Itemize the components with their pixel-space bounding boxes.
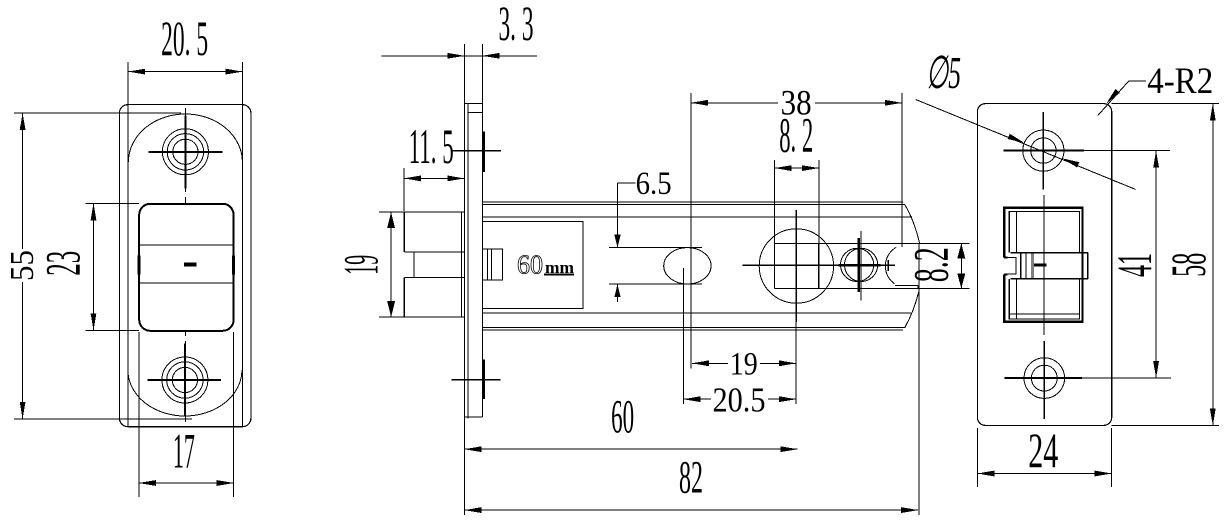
- bottom screw hole middle circle (left view): [167, 362, 203, 398]
- svg-text:17: 17: [173, 423, 195, 479]
- bottom screw crosshair (left view): [148, 344, 221, 417]
- dimension text 11.5: [409, 118, 454, 174]
- top screw hole inner circle (left view): [173, 139, 198, 164]
- dimension text 8.2 (square hole): [779, 107, 813, 163]
- follower hub inner vertical line bottom: [1016, 279, 1018, 319]
- faceplate bottom boss dome arc: [128, 370, 242, 416]
- dimension 3.3 line with arrows: [382, 53, 538, 59]
- left view vertical centerline: [185, 108, 187, 422]
- latch bolt right edge bold tick: [232, 256, 235, 275]
- dimension 11.5 extension line: [403, 168, 405, 211]
- bolt tail guide inner line 2: [490, 249, 492, 280]
- bottom screw hole inner circle (left view): [172, 367, 197, 392]
- dimension text 60: [611, 391, 634, 444]
- dimension 24 extension lines: [977, 428, 1111, 487]
- dimension 11.5 line with arrows: [404, 176, 465, 182]
- follower band top edge: [1010, 252, 1088, 254]
- extension line x=919 (82 dim right): [918, 243, 920, 515]
- svg-text:4-R2: 4-R2: [1147, 61, 1213, 102]
- case body top outer line: [482, 201, 903, 203]
- follower hub inner square: [1009, 212, 1079, 319]
- square spindle hole right edge: [818, 243, 820, 288]
- latch bolt left edge bold tick: [138, 256, 141, 275]
- dimension 17 extension line right: [233, 332, 235, 497]
- dimension text 6.5: [636, 166, 672, 202]
- case body top second line with end chamfer: [482, 204, 919, 243]
- dimension 20.5 line with arrows (left view top): [128, 69, 242, 75]
- dimension 6.5 leader elbow: [618, 182, 636, 184]
- case screw circle 2: [845, 248, 878, 281]
- dimension text 23: [34, 251, 90, 276]
- dimension 60 line with arrows: [464, 446, 797, 452]
- dimension 20.5 line with arrows (middle view): [683, 396, 796, 402]
- svg-text:∅5: ∅5: [926, 47, 961, 98]
- faceplate raised-face left edge line + 20.5 extension line: [127, 62, 129, 426]
- square spindle hole left edge: [774, 243, 776, 288]
- extension line x=901.9 (38 dim right): [901, 93, 903, 247]
- case body top inner wall line: [482, 216, 912, 218]
- case screw circle 1: [841, 248, 874, 281]
- top screw crosshair (left view): [148, 116, 222, 189]
- dimension 24 line with arrows: [977, 471, 1111, 477]
- faceplate top edge (side view): [464, 102, 482, 104]
- dimension 58 extension line bottom: [1112, 424, 1219, 426]
- follower band thin vertical 3: [1032, 253, 1034, 279]
- dimension 55 extension line top: [14, 112, 181, 114]
- stamped marking mm with underline: [544, 258, 574, 277]
- case screw phillips vertical bar: [857, 238, 860, 292]
- dimension text 20.5 (middle view): [711, 380, 768, 419]
- case body bottom outer line: [482, 329, 903, 331]
- dimension text 17: [173, 423, 195, 479]
- bolt head front face upper segment: [403, 212, 405, 252]
- dimension 41 line with arrows: [1153, 151, 1159, 379]
- svg-text:19: 19: [332, 255, 388, 275]
- oblong hole top tangent extension line: [609, 247, 702, 249]
- svg-text:20.5: 20.5: [713, 380, 766, 419]
- dimension 23 extension line top: [86, 202, 140, 204]
- follower band bold vertical: [1020, 253, 1022, 279]
- case body bottom inner wall line: [482, 312, 911, 314]
- dimension 55 line with arrows: [20, 113, 26, 419]
- svg-text:11. 5: 11. 5: [409, 118, 454, 174]
- svg-text:19: 19: [730, 347, 758, 383]
- svg-text:20. 5: 20. 5: [161, 10, 208, 66]
- dimension 3.3 second arrow: [482, 53, 499, 59]
- follower band thin vertical 2: [1031, 253, 1033, 279]
- top mounting screw centerline (side view): [452, 150, 501, 152]
- dimension text 3.3: [499, 0, 534, 51]
- stamped marking 60: [517, 250, 543, 280]
- svg-text:3. 3: 3. 3: [499, 0, 534, 51]
- svg-text:24: 24: [1028, 422, 1058, 478]
- case inner mechanism box: [482, 222, 583, 309]
- dimension 8.2 extension lines (square hole): [775, 160, 819, 243]
- dimension 38 line with arrows: [691, 100, 902, 106]
- right view vertical centerline: [1043, 195, 1045, 335]
- diameter 5 leader arrow upper: [1008, 134, 1025, 143]
- square spindle hole long bottom line (continues to tail slot): [775, 287, 970, 289]
- dimension 55 extension line bottom: [14, 418, 192, 420]
- svg-text:6.5: 6.5: [636, 166, 672, 202]
- tail slot semicircular end cap: [885, 247, 896, 283]
- follower hub outer square with left edge gap: [1004, 208, 1082, 322]
- latch bolt center bold dash: [184, 262, 197, 266]
- dimension text 8.2 (tail slot): [903, 247, 959, 282]
- bolt tail guide inner line 1: [486, 249, 488, 280]
- follower band bold center dash: [1034, 263, 1047, 266]
- follower band right end cap: [1087, 253, 1089, 279]
- dimension 8.2 line with arrows (square hole): [775, 165, 819, 171]
- dimension 41 extension line bottom: [1082, 377, 1171, 379]
- dimension 17 extension line left: [138, 332, 140, 497]
- bottom mounting screw centerline (side view): [452, 379, 501, 381]
- tail slot arc center mark tick: [887, 260, 889, 271]
- dimension text 58: [1160, 253, 1216, 277]
- dimension text 41: [1106, 253, 1162, 277]
- svg-text:60: 60: [611, 391, 634, 444]
- dimension 19 line with arrows (hole spacing): [692, 360, 796, 366]
- follower band thin vertical 1: [1025, 253, 1027, 279]
- oblong hole ellipse: [664, 248, 711, 284]
- svg-text:58: 58: [1160, 253, 1216, 277]
- dimension 19 line with arrows (bolt height): [387, 212, 395, 317]
- faceplate back face line: [481, 104, 483, 417]
- spindle bore crosshair vertical + extension: [795, 210, 797, 404]
- dimension 23 extension line bottom: [86, 329, 140, 331]
- case screw phillips horizontal bar: [839, 264, 881, 267]
- dimension text 4-R2: [1147, 61, 1213, 102]
- svg-text:60: 60: [517, 250, 543, 280]
- bolt head bottom edge + 19 extension line: [379, 316, 464, 318]
- faceplate bottom edge (side view): [464, 416, 482, 418]
- extension line x=683.3 (20.5 dim): [682, 268, 684, 404]
- diameter 5 leader line: [916, 100, 1136, 190]
- dimension text dia 5: [926, 47, 961, 98]
- latch bolt rounded-square outline (left view): [139, 204, 233, 331]
- bolt head top edge + 19 extension line: [379, 211, 464, 213]
- bottom screw hole outer circle (right view): [1024, 358, 1065, 399]
- latch bolt lower chord line: [139, 282, 233, 284]
- square spindle hole long top line (continues to tail slot): [775, 242, 970, 244]
- diameter 5 leader arrow lower: [1063, 158, 1080, 167]
- bolt head rear edge line: [461, 212, 463, 317]
- top screw hole middle circle (left view): [167, 134, 203, 170]
- dimension text 55: [4, 249, 41, 282]
- dimension 58 line with arrows: [1210, 104, 1216, 426]
- svg-text:23: 23: [34, 251, 90, 276]
- dimension 3.3 extension lines: [464, 44, 482, 104]
- strike/rear plate rounded rectangle: [977, 104, 1111, 426]
- dimension text 20.5 (left view top): [161, 10, 208, 66]
- dimension 8.2 line with arrows (tail slot): [957, 243, 965, 288]
- dimension 58 extension line top: [1112, 103, 1219, 105]
- dimension text 82: [679, 451, 703, 503]
- dimension text 38: [778, 82, 815, 122]
- spindle bore crosshair horizontal: [743, 264, 896, 266]
- spindle bore circle: [759, 229, 833, 303]
- dimension text 19 (bolt height): [332, 255, 388, 275]
- oblong hole bottom tangent extension line: [609, 283, 702, 285]
- bottom mounting screw bold hole line (side view): [482, 360, 485, 400]
- extension line x=690.8 (38/19 dims): [690, 93, 692, 369]
- dimension 82 line with arrows: [464, 507, 918, 513]
- bolt head notch lower edge: [404, 277, 464, 279]
- bolt tail guide rectangle: [482, 249, 502, 280]
- faceplate front inner line: [467, 103, 469, 418]
- dimension text 24: [1028, 422, 1058, 478]
- top screw hole outer circle (left view): [162, 129, 208, 175]
- latch bolt upper chord line: [139, 244, 233, 246]
- top mounting screw bold hole line (side view): [482, 132, 485, 172]
- tail slot lower step line: [895, 285, 918, 288]
- follower hub notch thin outline: [1004, 258, 1016, 274]
- follower band bottom edge: [1010, 278, 1088, 280]
- bolt head notch bottom face: [413, 252, 415, 278]
- corner radius 4-R2 leader: [1098, 81, 1146, 115]
- dimension 6.5 upper line with arrow: [614, 183, 620, 248]
- top screw hole outer circle (right view): [1023, 130, 1064, 171]
- bottom screw hole outer circle (left view): [162, 357, 208, 403]
- svg-text:8.2: 8.2: [903, 247, 959, 282]
- svg-text:41: 41: [1106, 253, 1162, 277]
- faceplate top inner step line: [468, 112, 482, 114]
- top screw crosshair (right view): [1003, 112, 1084, 189]
- faceplate front face line + 60/82 extension line: [463, 103, 465, 515]
- bottom screw crosshair (right view): [1004, 341, 1082, 419]
- bottom screw hole inner circle (right view): [1031, 365, 1057, 391]
- dimension 17 line with arrows: [139, 480, 234, 486]
- faceplate top boss dome arc: [128, 114, 242, 162]
- faceplate raised-face right edge line + 20.5 extension line: [242, 62, 244, 426]
- faceplate outer rounded rectangle (left view): [119, 105, 251, 427]
- bolt head front face lower segment: [403, 278, 405, 317]
- follower hub inner bottom line: [1009, 313, 1079, 315]
- dimension 23 line with arrows: [91, 203, 97, 330]
- svg-text:8. 2: 8. 2: [779, 107, 813, 163]
- dimension 41 extension line top: [1084, 150, 1170, 152]
- bolt head notch upper edge: [404, 251, 464, 253]
- case screw thin vertical crosshair: [860, 231, 862, 300]
- case body bottom second line with end chamfer: [482, 292, 918, 328]
- top screw hole inner circle (right view): [1031, 138, 1056, 163]
- follower hub inner vertical line top: [1016, 212, 1018, 253]
- dimension 6.5 lower line with arrow: [614, 284, 620, 302]
- dimension text 19 (hole spacing): [728, 347, 760, 383]
- svg-text:82: 82: [679, 451, 703, 503]
